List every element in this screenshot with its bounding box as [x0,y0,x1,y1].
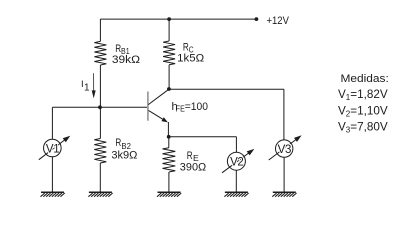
wire V1 below circle [51,157,53,193]
svg-text:V2=1,10V: V2=1,10V [338,104,388,118]
wire RE bottom [168,172,170,192]
wire collector node to V3 [169,88,284,90]
wire RB1 bottom to base junction to RB2 [99,65,101,139]
wire V1 down [51,107,53,139]
wire RB2 bottom [99,163,101,192]
svg-text:Medidas:: Medidas: [341,73,389,85]
svg-text:390Ω: 390Ω [180,161,206,173]
voltmeter V2 [222,149,254,173]
wire RC top [168,19,170,41]
wire V3 down [283,89,285,140]
wire emitter arrow to emitter node [167,122,169,137]
transistor Q1 collector line [148,89,169,104]
node base junction [98,105,102,109]
resistor RB1 [94,41,106,65]
resistor RC [163,41,175,65]
svg-text:39kΩ: 39kΩ [112,54,140,66]
wire V2 down [235,137,237,153]
ground RB2 [88,192,112,196]
svg-text:1: 1 [84,83,90,94]
wire V3 below circle [283,157,285,192]
svg-text:R: R [187,150,193,162]
transistor Q1 emitter line [149,110,164,120]
node +12V terminal [255,17,259,21]
ground V3 [272,192,296,196]
wire emitter row to V2 [169,136,237,138]
svg-text:=100: =100 [185,101,208,113]
current arrow I1 [93,73,95,90]
wire base row [52,106,147,108]
transistor Q1 base bar [147,92,149,121]
wire top rail +12V [100,18,256,20]
resistor RE [163,148,176,172]
voltmeter V3 [269,135,302,160]
transistor Q1 emitter arrowhead [161,117,168,122]
wire RC bottom to collector node [168,65,170,89]
svg-text:1k5Ω: 1k5Ω [177,53,204,65]
voltmeter V1 [39,136,71,160]
svg-text:V2: V2 [230,157,243,169]
svg-text:V3=7,80V: V3=7,80V [338,121,388,135]
svg-text:V1: V1 [46,143,59,155]
node collector [167,87,171,91]
wire V2 below circle [235,170,237,192]
ground V2 [224,192,248,196]
resistor RB2 [94,139,106,164]
svg-text:V3: V3 [278,144,291,156]
node emitter [167,135,171,139]
svg-text:+12V: +12V [267,15,290,27]
svg-text:V1=1,82V: V1=1,82V [338,88,388,102]
ground V1 [41,192,65,196]
node top rail junction [167,17,171,21]
svg-text:3k9Ω: 3k9Ω [111,150,137,162]
wire RB1 top [99,19,101,41]
ground RE [157,192,181,196]
wire RE top [168,137,170,148]
